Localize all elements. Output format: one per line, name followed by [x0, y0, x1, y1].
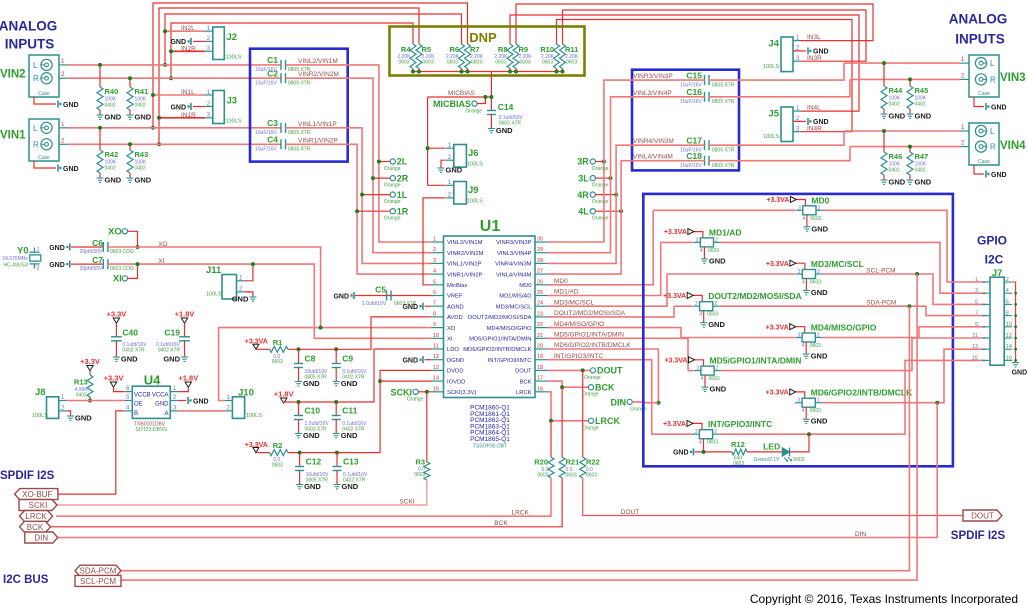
resistor network MD6/GPIO2/INTB/DMCLK: [796, 392, 805, 398]
resistor R44 100K: [883, 63, 885, 86]
node BCK flag: [588, 385, 593, 390]
svg-text:0603: 0603: [793, 457, 804, 463]
svg-text:VCCB: VCCB: [134, 393, 151, 399]
ground C13: [334, 485, 341, 489]
resistor R41 100K: [129, 78, 131, 87]
wire VINL3/VIN4P jog: [709, 79, 850, 96]
pin 27 U1 VINL4/VIN4M: [535, 273, 548, 275]
ground C14: [488, 129, 495, 133]
ground R45: [907, 114, 914, 118]
svg-text:100LS: 100LS: [206, 292, 222, 298]
svg-text:GND: GND: [496, 126, 513, 135]
wire J8 pin2 ground: [67, 411, 71, 416]
svg-text:Orange: Orange: [384, 216, 401, 222]
svg-text:MD0: MD0: [554, 278, 568, 285]
pin 24 U1 MD3/MC/SCL: [535, 305, 548, 307]
svg-text:PCM1865-Q1: PCM1865-Q1: [470, 436, 510, 443]
svg-text:3: 3: [695, 301, 698, 307]
svg-text:R11: R11: [565, 45, 578, 54]
svg-text:R22: R22: [586, 458, 600, 467]
pin 23 U1 DOUT2/MD2/MOSI/SDA: [535, 316, 548, 318]
node tag SDA-PCM: [75, 565, 121, 576]
svg-text:MD4/MISO/GPIO: MD4/MISO/GPIO: [487, 326, 532, 332]
svg-text:I2C: I2C: [985, 253, 1004, 267]
wire flag 4R: [595, 194, 616, 196]
node 1R: [390, 209, 395, 214]
ground R12: [693, 448, 695, 455]
ground J3 pin2: [193, 106, 205, 108]
wire MD4 to J7 pin9: [822, 327, 986, 338]
svg-text:R: R: [990, 143, 996, 152]
svg-text:A: A: [164, 411, 168, 417]
svg-text:R44: R44: [889, 86, 904, 95]
svg-text:R: R: [33, 74, 39, 83]
node 2R: [390, 176, 395, 181]
wire DOUT to tag: [583, 478, 963, 516]
svg-text:0603: 0603: [810, 343, 821, 349]
svg-text:R41: R41: [135, 87, 149, 96]
svg-text:R: R: [990, 75, 996, 84]
wire SCL-PCM: [121, 274, 917, 580]
svg-text:GND: GND: [341, 379, 358, 388]
connector J4: [781, 37, 793, 72]
pin 21 U1 MD5/GPIO1/INTA/DMIN: [535, 337, 548, 339]
svg-text:SOT23-DBVG: SOT23-DBVG: [136, 427, 168, 433]
capacitor C10 1.0ufd/16V: [298, 402, 300, 416]
svg-text:C16: C16: [686, 87, 702, 97]
wire SDA-PCM: [121, 306, 909, 571]
resistor R10 2.20K: [554, 44, 560, 69]
svg-text:2: 2: [714, 301, 717, 307]
op-amp U1 PCM186x: [444, 236, 536, 398]
ground C11: [333, 434, 340, 438]
connector J5: [781, 107, 793, 142]
svg-text:MD5/GPIO1/INTA/DMIN: MD5/GPIO1/INTA/DMIN: [469, 337, 531, 343]
wire flag 3R: [595, 161, 604, 163]
svg-text:DOUT: DOUT: [597, 366, 623, 376]
wire MD1 row: [661, 241, 693, 243]
svg-text:LRCK: LRCK: [595, 416, 620, 426]
svg-text:+3.3VA: +3.3VA: [663, 421, 686, 428]
svg-text:GND: GND: [446, 166, 463, 175]
svg-text:VINR1/VIN2P: VINR1/VIN2P: [447, 272, 483, 278]
node DOUT flag: [590, 368, 595, 373]
wire MD4/MISO/GPIO: [548, 328, 682, 338]
svg-text:VIN3: VIN3: [1000, 72, 1026, 84]
pin 11 U1 LDO: [431, 348, 444, 350]
svg-text:0603: 0603: [471, 60, 482, 66]
svg-text:GND: GND: [170, 39, 186, 46]
wire MD3/MC/SCL: [548, 274, 668, 306]
svg-text:11: 11: [972, 333, 978, 339]
node tag BCK: [20, 521, 51, 532]
wire INT/GPIO3/INTC: [548, 360, 694, 435]
svg-text:GND: GND: [333, 293, 349, 300]
svg-text:13: 13: [972, 344, 978, 350]
svg-text:+3.3V: +3.3V: [80, 357, 100, 366]
svg-text:R40: R40: [105, 87, 119, 96]
ground R47: [907, 180, 914, 184]
svg-text:Case: Case: [978, 159, 990, 165]
svg-text:18: 18: [537, 365, 543, 371]
svg-text:3: 3: [797, 333, 800, 339]
svg-text:0805 X7R: 0805 X7R: [712, 99, 735, 105]
svg-text:LRCK: LRCK: [25, 512, 47, 521]
ground R40: [97, 115, 104, 119]
resistor R20 0.0: [550, 421, 552, 457]
svg-text:10uF/16V: 10uF/16V: [680, 99, 702, 105]
svg-text:GND: GND: [709, 256, 726, 265]
svg-text:Orange: Orange: [384, 166, 401, 172]
ground R44: [881, 114, 888, 118]
wire VIN3L line: [844, 62, 960, 64]
wire MD3 to J7 pin5: [823, 274, 987, 304]
pin 1 U1 VINL2/VIN1M: [431, 241, 444, 243]
svg-text:2: 2: [716, 366, 719, 372]
svg-text:MD3/MC/SCL: MD3/MC/SCL: [554, 299, 594, 306]
wire VINL4/VIN4M jog: [709, 147, 850, 161]
svg-text:IN2L: IN2L: [181, 25, 195, 32]
svg-text:0603: 0603: [537, 473, 548, 479]
svg-text:GND: GND: [915, 178, 932, 187]
svg-text:J9: J9: [468, 185, 479, 196]
svg-text:C19: C19: [164, 327, 180, 337]
pin 5 U1 MicBias: [431, 284, 444, 286]
svg-text:2: 2: [818, 205, 821, 211]
svg-text:LRCK: LRCK: [512, 510, 530, 517]
svg-text:4R: 4R: [577, 190, 589, 200]
pin 9 U1 XO: [431, 327, 444, 329]
wire VIN4R line: [850, 146, 960, 148]
svg-text:J11: J11: [206, 265, 222, 276]
svg-text:VINR2/VIN2M: VINR2/VIN2M: [298, 71, 339, 78]
svg-text:MD0: MD0: [519, 283, 531, 289]
wire IN4L top bus: [510, 15, 859, 111]
svg-text:DOUT: DOUT: [621, 509, 639, 516]
wire MD0: [548, 210, 654, 284]
svg-text:Orange: Orange: [592, 199, 609, 205]
wire DVDD IOVDD rail: [288, 370, 431, 452]
svg-text:C17: C17: [686, 135, 702, 145]
wire DOUT2 to J7 pin7: [720, 306, 986, 315]
svg-text:XI: XI: [158, 258, 164, 265]
svg-text:LDO: LDO: [447, 347, 459, 353]
svg-text:26: 26: [537, 279, 543, 285]
wire XO flag: [128, 231, 138, 247]
svg-text:R3: R3: [415, 458, 425, 467]
ground J8: [67, 416, 74, 420]
svg-text:VINR3/VIN3P: VINR3/VIN3P: [633, 73, 673, 80]
svg-text:21: 21: [537, 333, 543, 339]
svg-text:R4: R4: [401, 45, 411, 54]
resistor R6 2.20K: [459, 44, 465, 69]
wire VINL4/VIN4M to U1 pin27: [548, 161, 705, 274]
svg-text:GND: GND: [710, 385, 727, 394]
node 2L: [390, 159, 395, 164]
wire flag 1R: [357, 210, 390, 212]
wire flag 4L: [595, 210, 621, 212]
svg-text:XO-BUF: XO-BUF: [22, 490, 52, 499]
svg-text:DIN: DIN: [611, 397, 627, 407]
wire MD3 row: [667, 273, 795, 275]
wire AVDD rail: [288, 317, 431, 349]
svg-text:30: 30: [537, 237, 543, 243]
wire XO-BUF: [58, 411, 124, 494]
svg-text:VINL2/VIN1M: VINL2/VIN1M: [298, 58, 338, 65]
svg-text:OE: OE: [134, 401, 143, 407]
svg-text:DIN: DIN: [34, 534, 48, 543]
pin 30 U1 VINR3/VIN3P: [535, 241, 548, 243]
group box GPIO pull-ups: [643, 194, 953, 466]
svg-text:B: B: [134, 411, 138, 417]
svg-text:GND: GND: [303, 379, 320, 388]
svg-text:J4: J4: [768, 39, 779, 50]
svg-text:DGND: DGND: [447, 358, 464, 364]
svg-text:BCK: BCK: [520, 379, 532, 385]
svg-text:IOVDD: IOVDD: [447, 379, 465, 385]
svg-text:100LS: 100LS: [226, 119, 242, 125]
svg-text:GND: GND: [105, 113, 122, 122]
svg-text:15: 15: [972, 355, 978, 361]
wire C14 to ground: [490, 115, 492, 129]
svg-text:DNP: DNP: [469, 30, 497, 45]
svg-text:R43: R43: [135, 150, 149, 159]
svg-text:SDA-PCM: SDA-PCM: [80, 567, 117, 576]
resistor R46 100K: [883, 131, 885, 152]
resistor R40 100K: [99, 65, 101, 87]
svg-text:23: 23: [537, 311, 543, 317]
svg-text:R47: R47: [915, 152, 929, 161]
svg-text:GND: GND: [915, 112, 932, 121]
svg-text:MD4/MISO/GPIO: MD4/MISO/GPIO: [554, 321, 604, 328]
pin 13 U1 DVDD: [431, 369, 444, 371]
node tag DOUT: [963, 510, 1002, 521]
svg-text:2: 2: [817, 398, 820, 404]
svg-text:16: 16: [1006, 355, 1012, 361]
svg-text:2: 2: [1006, 277, 1009, 283]
svg-text:+1.8V: +1.8V: [175, 310, 195, 319]
svg-text:Case: Case: [38, 91, 50, 97]
pin 2 U1 VINR2/VIN2M: [431, 252, 444, 254]
ground C8: [295, 382, 302, 386]
svg-text:8: 8: [433, 311, 436, 317]
svg-text:14: 14: [1006, 344, 1012, 350]
svg-text:10: 10: [1006, 322, 1012, 328]
svg-text:1: 1: [37, 247, 40, 253]
svg-text:L: L: [990, 127, 995, 136]
ground C12: [296, 485, 303, 489]
svg-text:Orange: Orange: [582, 392, 599, 398]
wire J11 pin2 ground: [245, 292, 253, 297]
svg-text:C7: C7: [92, 255, 103, 265]
svg-text:C12: C12: [306, 457, 322, 467]
wire DIN to tag: [58, 403, 937, 538]
wire XI net: [108, 264, 431, 338]
svg-text:+3.3V: +3.3V: [106, 310, 126, 319]
svg-text:C13: C13: [343, 457, 359, 467]
svg-text:MD5/GPIO1/INTA/DMIN: MD5/GPIO1/INTA/DMIN: [554, 332, 624, 339]
capacitor C18 10uF/16V: [705, 156, 710, 166]
svg-text:R13: R13: [74, 378, 88, 387]
svg-text:MD6/GPIO2/INTB/DMCLK: MD6/GPIO2/INTB/DMCLK: [811, 388, 913, 398]
svg-text:SCL-PCM: SCL-PCM: [80, 577, 116, 586]
svg-text:0603: 0603: [810, 280, 821, 286]
wire DOUT2 row: [674, 305, 692, 307]
svg-text:MICBIAS: MICBIAS: [433, 99, 471, 109]
wire IN2R: [171, 50, 205, 52]
svg-text:MD6/GPIO2/INTB/DMCLK: MD6/GPIO2/INTB/DMCLK: [554, 342, 631, 349]
svg-text:INT/GPIO3/INTC: INT/GPIO3/INTC: [488, 358, 532, 364]
svg-text:J8: J8: [35, 387, 46, 398]
svg-text:Case: Case: [978, 91, 990, 97]
wire C19 ground: [184, 341, 186, 357]
wire MD6 to J7 pin13: [822, 349, 986, 403]
svg-text:0603: 0603: [520, 60, 531, 66]
svg-text:10uF/16V: 10uF/16V: [255, 147, 277, 153]
svg-text:4: 4: [802, 408, 805, 414]
svg-text:0402: 0402: [915, 168, 926, 174]
svg-text:100LS: 100LS: [226, 55, 242, 61]
svg-text:IN4R: IN4R: [807, 125, 822, 132]
node LRCK flag: [588, 418, 593, 423]
svg-text:20pfd/50V: 20pfd/50V: [80, 266, 103, 272]
svg-text:0603 COG: 0603 COG: [110, 266, 134, 272]
capacitor C40 0.1ufd/16V: [111, 337, 122, 341]
svg-text:R45: R45: [915, 86, 929, 95]
svg-text:1.0ufd/16V: 1.0ufd/16V: [362, 301, 387, 307]
wire J7 even pins to ground: [1012, 282, 1015, 362]
resistor network MD1/AD: [694, 232, 703, 238]
pin 28 U1 VINR4/VIN3M: [535, 262, 548, 264]
svg-text:C9: C9: [342, 354, 353, 364]
svg-text:GND: GND: [673, 450, 689, 457]
svg-text:0603: 0603: [414, 472, 425, 478]
resistor R47 100K: [909, 147, 911, 152]
svg-text:VREF: VREF: [447, 294, 463, 300]
svg-text:C4: C4: [267, 135, 278, 145]
capacitor C2 10uF/16V: [281, 73, 286, 83]
wire IN3R top bus: [563, 10, 867, 61]
svg-text:INPUTS: INPUTS: [955, 32, 1005, 47]
wire VIN2L top bus: [165, 14, 462, 65]
svg-text:U1: U1: [480, 218, 501, 235]
svg-text:AGND: AGND: [447, 304, 464, 310]
wire MD5 to J7 pin11: [721, 338, 986, 371]
wire IN1R: [159, 117, 205, 119]
svg-text:+3.3VA: +3.3VA: [663, 293, 686, 300]
svg-text:R8: R8: [498, 45, 508, 54]
svg-text:2: 2: [715, 237, 718, 243]
ground DGND U1 pin12: [425, 359, 432, 361]
svg-text:15: 15: [433, 386, 439, 392]
svg-text:GND: GND: [341, 431, 358, 440]
wire VINL2/VIN1M to U1 pin1: [286, 65, 432, 242]
ground J6 pin2: [441, 160, 445, 168]
svg-text:GND: GND: [170, 104, 186, 111]
wire IOVDD stub: [380, 380, 431, 382]
connector J6: [454, 145, 467, 168]
svg-text:SCKI(3.3V): SCKI(3.3V): [447, 390, 476, 396]
svg-text:0805 X7R: 0805 X7R: [712, 147, 735, 153]
svg-text:R46: R46: [889, 152, 903, 161]
resistor R3 0.0: [426, 392, 428, 462]
wire J8 pin1 to U4 OE: [67, 400, 125, 402]
svg-text:GND: GND: [402, 304, 418, 311]
svg-text:L: L: [33, 61, 38, 70]
svg-text:GND: GND: [49, 245, 65, 252]
connector VIN1 RCA jack: [29, 119, 59, 161]
wire MD1/AD: [548, 242, 661, 295]
ground VIN4 case: [985, 171, 987, 178]
resistor R5 2.20K: [416, 44, 422, 69]
svg-text:GND: GND: [813, 49, 829, 56]
wire LDO rail: [284, 349, 431, 403]
svg-text:GND: GND: [991, 172, 1007, 179]
svg-text:L: L: [33, 124, 38, 133]
svg-text:R21: R21: [566, 458, 580, 467]
svg-text:GND: GND: [708, 320, 725, 329]
svg-text:14: 14: [433, 376, 439, 382]
svg-text:0402: 0402: [105, 166, 116, 172]
svg-text:4L: 4L: [578, 206, 589, 216]
svg-text:SDA-PCM: SDA-PCM: [866, 300, 896, 307]
svg-text:VINR2/VIN2M: VINR2/VIN2M: [447, 251, 484, 257]
pin 29 U1 VINL3/VIN4P: [535, 252, 548, 254]
svg-text:L: L: [990, 59, 995, 68]
resistor R42 100K: [99, 128, 101, 150]
wire VIN2 case ground: [34, 97, 56, 104]
svg-text:R2: R2: [273, 441, 283, 450]
node 1L: [390, 192, 395, 197]
svg-text:GND: GND: [63, 166, 79, 173]
connector VIN2 RCA jack: [29, 55, 59, 97]
ground C10: [295, 434, 302, 438]
svg-text:12: 12: [1006, 333, 1012, 339]
ground VIN2 case: [57, 101, 59, 108]
svg-text:IN3R: IN3R: [807, 55, 822, 62]
svg-text:C14: C14: [498, 102, 514, 112]
pin 8 U1 AVDD: [431, 316, 444, 318]
svg-text:MD5/GPIO1/INTA/DMIN: MD5/GPIO1/INTA/DMIN: [710, 356, 802, 366]
svg-text:DOUT2/MD2/MOSI/SDA: DOUT2/MD2/MOSI/SDA: [708, 291, 802, 301]
svg-text:10uF/16V: 10uF/16V: [255, 80, 277, 86]
svg-text:GND: GND: [303, 431, 320, 440]
ground J4 pin2: [793, 50, 806, 52]
svg-text:XI: XI: [113, 274, 122, 285]
pin 18 U1 DOUT: [535, 369, 548, 371]
LED D1 Green/2.1V: [782, 448, 789, 457]
svg-text:MD4/MISO/GPIO: MD4/MISO/GPIO: [811, 323, 877, 333]
svg-text:10uF/16V: 10uF/16V: [680, 163, 702, 169]
svg-text:0402: 0402: [105, 103, 116, 109]
wire INT to J7 pin15: [720, 360, 986, 434]
svg-text:+3.3V: +3.3V: [104, 374, 124, 383]
ground R41: [127, 115, 134, 119]
wire VIN1R line: [68, 143, 281, 145]
connector J2: [213, 27, 225, 60]
svg-text:0603: 0603: [708, 248, 719, 254]
resistor R12 649: [732, 449, 747, 455]
svg-text:5: 5: [975, 299, 978, 305]
svg-text:1: 1: [975, 277, 978, 283]
svg-text:DOUT: DOUT: [971, 512, 994, 521]
resistor R21 0.0: [561, 387, 563, 457]
svg-text:2: 2: [817, 333, 820, 339]
svg-text:GND: GND: [811, 288, 828, 297]
svg-text:INT/GPIO3/INTC: INT/GPIO3/INTC: [708, 419, 772, 429]
wire R12 row: [695, 451, 733, 453]
svg-text:VIN2: VIN2: [0, 69, 26, 81]
